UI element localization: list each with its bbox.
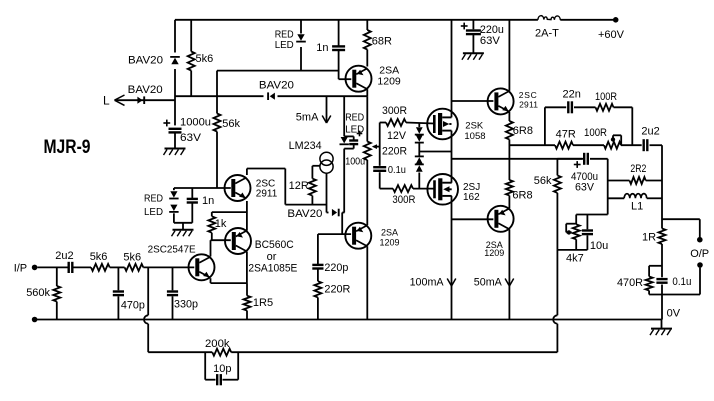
- label BAV20 D2: [128, 84, 163, 96]
- label 6R8 R6: [513, 125, 533, 137]
- diode RED LED2: [340, 137, 349, 144]
- hop NFB left over rail: [144, 315, 148, 323]
- hop NFB over 0V rail: [553, 315, 557, 323]
- node input ground terminal: [32, 317, 38, 323]
- wire Q4 emitter to 6R8: [508, 112, 510, 121]
- pot VR3 4k7: [566, 215, 580, 250]
- svg-text:0V: 0V: [667, 308, 681, 320]
- transistor Q2 2SC2911: [225, 175, 251, 201]
- svg-text:or: or: [267, 251, 277, 263]
- wire upper gate line: [380, 123, 434, 124]
- label 2SK: [464, 121, 485, 143]
- wire LM234 bottom: [326, 173, 328, 212]
- label 0.1u C9: [672, 276, 691, 288]
- wire to Q1 base: [339, 78, 352, 80]
- wire wiper column: [379, 123, 381, 189]
- label + C7: [574, 161, 581, 168]
- resistor R11 1R: [659, 229, 666, 245]
- capacitor C9 0.1u: [656, 279, 667, 283]
- transistor Q1 2SA1209: [346, 66, 372, 97]
- label 5k6 R1: [196, 53, 214, 65]
- wire 56k to base node: [216, 132, 218, 189]
- wire 2SJ source down: [451, 196, 453, 320]
- wire Q4 collector: [508, 20, 510, 91]
- svg-text:BAV20: BAV20: [128, 55, 163, 67]
- label 330p C14: [174, 299, 198, 311]
- node I/P terminal: [32, 265, 38, 271]
- svg-text:+60V: +60V: [598, 29, 625, 41]
- label 220R VR1: [382, 146, 407, 158]
- wire 470R loop: [649, 266, 700, 295]
- wire bias line 2: [327, 212, 345, 214]
- svg-text:220p: 220p: [324, 262, 348, 274]
- svg-text:63V: 63V: [480, 35, 501, 47]
- ground G4: [650, 329, 672, 336]
- inductor L1: [624, 194, 646, 199]
- svg-text:LED: LED: [144, 207, 163, 218]
- transistor M1 2SK1058: [427, 109, 458, 140]
- capacitor C8 10u: [582, 215, 593, 250]
- label 68R R3: [372, 36, 392, 48]
- wire to Q6 base: [143, 266, 194, 268]
- svg-text:50mA: 50mA: [474, 277, 503, 289]
- wire 2SK source to 2SJ drain: [451, 131, 453, 183]
- label + C10: [357, 131, 363, 137]
- wire rail to C4: [472, 20, 474, 30]
- transistor M2 2SJ162: [427, 174, 458, 205]
- svg-text:47R: 47R: [556, 129, 576, 141]
- wire 2u2 to out column: [650, 144, 663, 146]
- svg-text:O/P: O/P: [690, 248, 709, 260]
- svg-text:BAV20: BAV20: [128, 84, 163, 96]
- svg-text:2u2: 2u2: [55, 250, 73, 262]
- svg-text:5mA: 5mA: [296, 112, 319, 124]
- diode BAV20 D3: [268, 92, 275, 100]
- resistor R10 2R2: [630, 177, 646, 184]
- diode RED LED1: [296, 34, 306, 41]
- label 12R R13: [289, 180, 309, 192]
- wire out column upper: [661, 145, 663, 228]
- svg-text:10p: 10p: [213, 363, 231, 375]
- svg-text:LM234: LM234: [289, 140, 322, 152]
- label 2SJ: [463, 182, 480, 203]
- capacitor C12 2u2: [69, 262, 73, 273]
- wire emitter link: [212, 211, 247, 213]
- wire VR2 wiper loop: [613, 135, 621, 145]
- capacitor C2 1n: [332, 20, 345, 79]
- label 1000u: [180, 117, 211, 129]
- wire input line: [37, 266, 68, 268]
- resistor R13 12R: [309, 166, 321, 205]
- svg-text:MJR-9: MJR-9: [44, 137, 91, 158]
- svg-text:560k: 560k: [26, 287, 50, 299]
- svg-text:BAV20: BAV20: [287, 208, 322, 220]
- svg-text:5k6: 5k6: [123, 252, 141, 264]
- svg-text:5k6: 5k6: [90, 251, 108, 263]
- label 4700u C7: [571, 171, 598, 183]
- wire Q1 col to 220R: [366, 96, 368, 141]
- svg-text:1209: 1209: [377, 76, 401, 88]
- label 2u2 C12: [55, 250, 73, 262]
- wire lower gate line: [380, 188, 434, 190]
- resistor R4 300R upper: [386, 119, 406, 126]
- diode D6 zener: [415, 156, 424, 163]
- label 100R VR2: [584, 127, 607, 139]
- svg-text:2u2: 2u2: [641, 126, 659, 138]
- pot VR1 220R: [364, 142, 380, 161]
- resistor R16 5k6: [91, 264, 110, 271]
- diode BAV20 D2: [137, 96, 144, 104]
- svg-text:2R2: 2R2: [630, 163, 646, 175]
- wire O/P lower lead: [699, 268, 701, 295]
- svg-text:0.1u: 0.1u: [388, 165, 406, 176]
- svg-text:330p: 330p: [174, 299, 198, 311]
- label L: [103, 94, 110, 108]
- svg-text:63V: 63V: [180, 132, 202, 144]
- wire LED2 column: [343, 96, 345, 212]
- resistor R19 1k: [208, 212, 215, 240]
- label + C1: [163, 120, 170, 127]
- label Q4 2SC: [519, 90, 539, 110]
- svg-text:1n: 1n: [316, 42, 328, 54]
- svg-text:200k: 200k: [205, 338, 230, 350]
- svg-text:L1: L1: [631, 201, 643, 213]
- wire Q7 base line: [211, 239, 231, 241]
- svg-text:2SC2547E: 2SC2547E: [148, 244, 196, 255]
- label 0V: [667, 308, 681, 320]
- resistor R14 220R: [314, 281, 321, 297]
- ground G1: [164, 149, 186, 156]
- label 5mA: [296, 112, 319, 124]
- wire Q4 base: [452, 100, 494, 102]
- label 56k R9: [534, 175, 552, 187]
- svg-text:5k6: 5k6: [196, 53, 214, 65]
- resistor R12 470R: [646, 277, 653, 291]
- svg-text:RED: RED: [345, 112, 364, 123]
- node VR3 wiper dot: [567, 230, 571, 234]
- fuse F1 2A-T: [538, 16, 561, 20]
- svg-text:1R: 1R: [642, 232, 656, 244]
- label 470p C13: [121, 300, 145, 312]
- label 200k R21: [205, 338, 230, 350]
- svg-text:BC560C: BC560C: [255, 239, 294, 251]
- capacitor C13 470p: [113, 267, 124, 319]
- diode D5 zener: [415, 135, 424, 142]
- wire Q7 collector down: [246, 252, 248, 284]
- label 470R R12: [617, 277, 643, 289]
- label 5k6 R17: [123, 252, 141, 264]
- resistor R1 5k6: [188, 20, 195, 96]
- transistor Q4 2SC2911: [488, 88, 514, 114]
- wire NFB line: [148, 351, 557, 353]
- label 63V C7: [575, 182, 595, 194]
- label RED LED1: [275, 30, 294, 52]
- svg-text:2911: 2911: [519, 100, 538, 110]
- resistor R15 6R8: [506, 159, 513, 209]
- label 56k R2: [222, 118, 240, 130]
- label 22n C5: [563, 89, 581, 101]
- label LM234: [289, 140, 322, 152]
- wire 47R line: [509, 144, 641, 146]
- svg-text:63V: 63V: [575, 182, 595, 194]
- svg-text:6R8: 6R8: [513, 125, 533, 137]
- wire Q3 collector down: [366, 246, 368, 319]
- node VR2 wiper dot: [611, 137, 615, 141]
- wire to driver base: [318, 213, 351, 235]
- svg-text:1058: 1058: [464, 131, 485, 142]
- transistor Q3 2SA1209 driver: [345, 223, 371, 249]
- wire out column mid: [661, 244, 663, 320]
- resistor R8 100R: [596, 104, 614, 111]
- capacitor C1 1000u electrolytic: [169, 129, 182, 133]
- wire 22n to 100R: [574, 106, 596, 108]
- wire node x217: [216, 71, 218, 114]
- svg-text:2SA: 2SA: [381, 228, 398, 238]
- label Q3 2SA: [380, 228, 400, 248]
- diode D7 zener: [415, 164, 424, 171]
- wire 0V ground stem: [661, 320, 663, 329]
- wire 5mA column: [326, 96, 328, 123]
- wire 220R to driver emitter: [366, 160, 368, 225]
- capacitor C6 2u2: [644, 139, 648, 151]
- diode BAV20 D1 (vertical): [170, 57, 180, 64]
- svg-text:1k: 1k: [215, 218, 227, 230]
- label 560k R18: [26, 287, 50, 299]
- label Q6 2SC2547E: [148, 244, 196, 255]
- wire 220R to rail: [317, 297, 319, 319]
- node O/P terminal upper: [697, 237, 703, 243]
- svg-text:2SC: 2SC: [519, 90, 538, 100]
- svg-text:I/P: I/P: [14, 263, 27, 275]
- diode D4 zener: [415, 127, 424, 134]
- label +60V: [598, 29, 625, 41]
- label RED LED34: [144, 194, 163, 219]
- svg-text:12R: 12R: [289, 180, 309, 192]
- svg-text:1R5: 1R5: [253, 297, 273, 309]
- svg-text:2SA1085E: 2SA1085E: [248, 263, 297, 275]
- svg-text:1209: 1209: [380, 237, 400, 247]
- wire 10p loop: [205, 352, 238, 380]
- svg-text:162: 162: [463, 192, 480, 203]
- svg-text:56k: 56k: [534, 175, 552, 187]
- arrow 100mA: [447, 279, 456, 287]
- transistor Q6 2SC2547E: [189, 254, 215, 280]
- label RED LED2: [345, 112, 364, 135]
- capacitor C5 22n: [568, 101, 572, 113]
- svg-text:1209: 1209: [484, 248, 504, 258]
- label 0.1u C3: [388, 165, 406, 176]
- svg-text:6R8: 6R8: [512, 189, 532, 201]
- resistor R6 6R8: [506, 121, 513, 140]
- wire output line: [452, 158, 584, 160]
- label 6R8 R15: [512, 189, 532, 201]
- label 100R R8: [595, 91, 617, 103]
- label 220u C4: [480, 24, 504, 36]
- resistor R9 56k: [554, 159, 561, 250]
- transistor Q5 2SA1209: [488, 206, 514, 232]
- wire bias line y96: [175, 95, 367, 97]
- label 2R2 R10: [630, 163, 646, 175]
- svg-text:10u: 10u: [590, 240, 608, 252]
- svg-text:470p: 470p: [121, 300, 145, 312]
- svg-text:100R: 100R: [595, 91, 617, 103]
- capacitor C11 220p: [312, 234, 323, 281]
- svg-text:0.1u: 0.1u: [672, 276, 691, 288]
- svg-text:12V: 12V: [387, 130, 407, 142]
- wire 6R8 to output line: [508, 140, 510, 159]
- label 300R R5: [392, 194, 415, 206]
- label 1n C15: [202, 195, 214, 207]
- transistor Q7 BC560C: [225, 228, 251, 254]
- label 1R R11: [642, 232, 656, 244]
- wire NFB left column: [147, 267, 149, 352]
- wire y70 link: [217, 70, 339, 72]
- label BAV20 D3: [259, 80, 294, 92]
- svg-text:300R: 300R: [382, 105, 407, 117]
- wire base node line: [174, 187, 231, 189]
- label 5k6 R16: [90, 251, 108, 263]
- current source LM234: [320, 152, 333, 173]
- label L1: [631, 201, 643, 213]
- wire Q6 emitter: [211, 278, 248, 283]
- diode RED LED4: [169, 205, 178, 223]
- svg-text:220R: 220R: [324, 284, 350, 296]
- svg-text:2A-T: 2A-T: [535, 28, 559, 40]
- node +60V terminal: [613, 17, 619, 23]
- label 1k R19: [215, 218, 227, 230]
- wire C1 to ground: [174, 133, 176, 149]
- capacitor C16 10p: [217, 374, 221, 385]
- label 2A-T: [535, 28, 559, 40]
- wire L1 line: [608, 197, 662, 199]
- label O/P: [690, 248, 709, 260]
- label 220R R14: [324, 284, 350, 296]
- svg-text:RED: RED: [275, 30, 294, 41]
- arrow 50mA: [505, 279, 514, 287]
- diode RED LED3: [169, 188, 178, 199]
- label 2u2 C6: [641, 126, 659, 138]
- wire O/P branch: [662, 219, 700, 237]
- wire mid: [110, 266, 125, 268]
- label 50mA: [474, 277, 503, 289]
- resistor R18 560k: [53, 267, 60, 319]
- label Q1 2SA: [377, 65, 401, 88]
- svg-text:L: L: [103, 94, 110, 108]
- wire diode column upper: [418, 123, 420, 128]
- svg-text:LED: LED: [275, 40, 294, 51]
- label MJR-9 title: [44, 137, 91, 158]
- capacitor C10 100u: [344, 136, 358, 148]
- capacitor C4 220u: [466, 31, 481, 35]
- svg-text:300R: 300R: [392, 194, 415, 206]
- wire Q2 emitter to Q7: [246, 201, 248, 231]
- label 47R R7: [556, 129, 576, 141]
- wire diode mid: [419, 143, 451, 156]
- svg-text:470R: 470R: [617, 277, 643, 289]
- diode BAV20 D8: [332, 209, 339, 217]
- svg-text:2911: 2911: [256, 189, 278, 200]
- wire L input line: [115, 99, 176, 101]
- label 63V C1: [180, 132, 202, 144]
- ground G3: [462, 53, 484, 60]
- label 10u C8: [590, 240, 608, 252]
- resistor R5 300R lower: [393, 185, 413, 192]
- wire 0V rail: [35, 319, 662, 321]
- wire top +60V rail: [175, 19, 613, 21]
- resistor VR2 100R: [604, 142, 621, 149]
- svg-text:BAV20: BAV20: [259, 80, 294, 92]
- arrow 5mA: [322, 116, 331, 124]
- resistor R3 68R: [364, 20, 371, 67]
- resistor R17 5k6: [125, 264, 144, 271]
- label 1n C2: [316, 42, 328, 54]
- wire 2u2 to 5k6: [73, 266, 91, 268]
- label Q7 BC560C: [248, 239, 297, 275]
- wire Q5 base line: [452, 218, 494, 220]
- svg-text:1000u: 1000u: [180, 117, 211, 129]
- label 220p C11: [324, 262, 348, 274]
- svg-text:220R: 220R: [382, 146, 407, 158]
- wire 22n branch left: [545, 107, 566, 145]
- resistor R20 1R5: [244, 283, 251, 319]
- capacitor C3 0.1u: [373, 167, 386, 171]
- wire Q2 collector path: [247, 169, 327, 205]
- wire Q5 collector down: [508, 229, 510, 319]
- wire left rail x175: [174, 20, 176, 126]
- svg-text:100R: 100R: [584, 127, 607, 139]
- resistor R21 200k: [212, 349, 231, 356]
- capacitor C14 330p: [167, 267, 178, 319]
- wire NFB column right: [556, 250, 558, 352]
- node O/P terminal lower: [697, 262, 703, 268]
- svg-text:56k: 56k: [222, 118, 240, 130]
- svg-text:100u: 100u: [345, 157, 365, 168]
- label BAV20 D1: [128, 55, 163, 67]
- label 100mA: [410, 277, 445, 289]
- wire node A column: [607, 159, 609, 215]
- wire feedback bottom link: [557, 249, 587, 251]
- wire module bottom: [174, 223, 192, 230]
- label 10p C16: [213, 363, 231, 375]
- svg-text:2SK: 2SK: [465, 121, 484, 132]
- capacitor C15 1n: [187, 188, 198, 223]
- wire 22n branch right: [614, 107, 633, 145]
- svg-text:1n: 1n: [202, 195, 214, 207]
- svg-text:4k7: 4k7: [566, 253, 584, 265]
- label I/P: [14, 263, 27, 275]
- label + C4: [461, 23, 468, 30]
- label Q5 2SA: [484, 240, 504, 258]
- svg-text:68R: 68R: [372, 36, 392, 48]
- arrow L input: [115, 95, 125, 105]
- wire diode column lower: [418, 173, 420, 189]
- label BAV20 D8: [287, 208, 322, 220]
- svg-text:22n: 22n: [563, 89, 581, 101]
- wire 2R2 line: [608, 180, 662, 182]
- label 100u C10: [345, 157, 365, 168]
- wire Q6 collector up: [210, 240, 212, 256]
- label 1R5 R20: [253, 297, 273, 309]
- wire feedback top link: [576, 214, 608, 216]
- resistor R2 56k: [214, 114, 221, 132]
- label 12V: [387, 130, 407, 142]
- svg-text:RED: RED: [144, 194, 163, 205]
- resistor R7 47R: [555, 142, 573, 149]
- wire C4 to ground: [472, 35, 474, 54]
- wire 2SK drain: [451, 20, 453, 118]
- label 63V C4: [480, 35, 501, 47]
- wire LED1 leads: [300, 20, 302, 71]
